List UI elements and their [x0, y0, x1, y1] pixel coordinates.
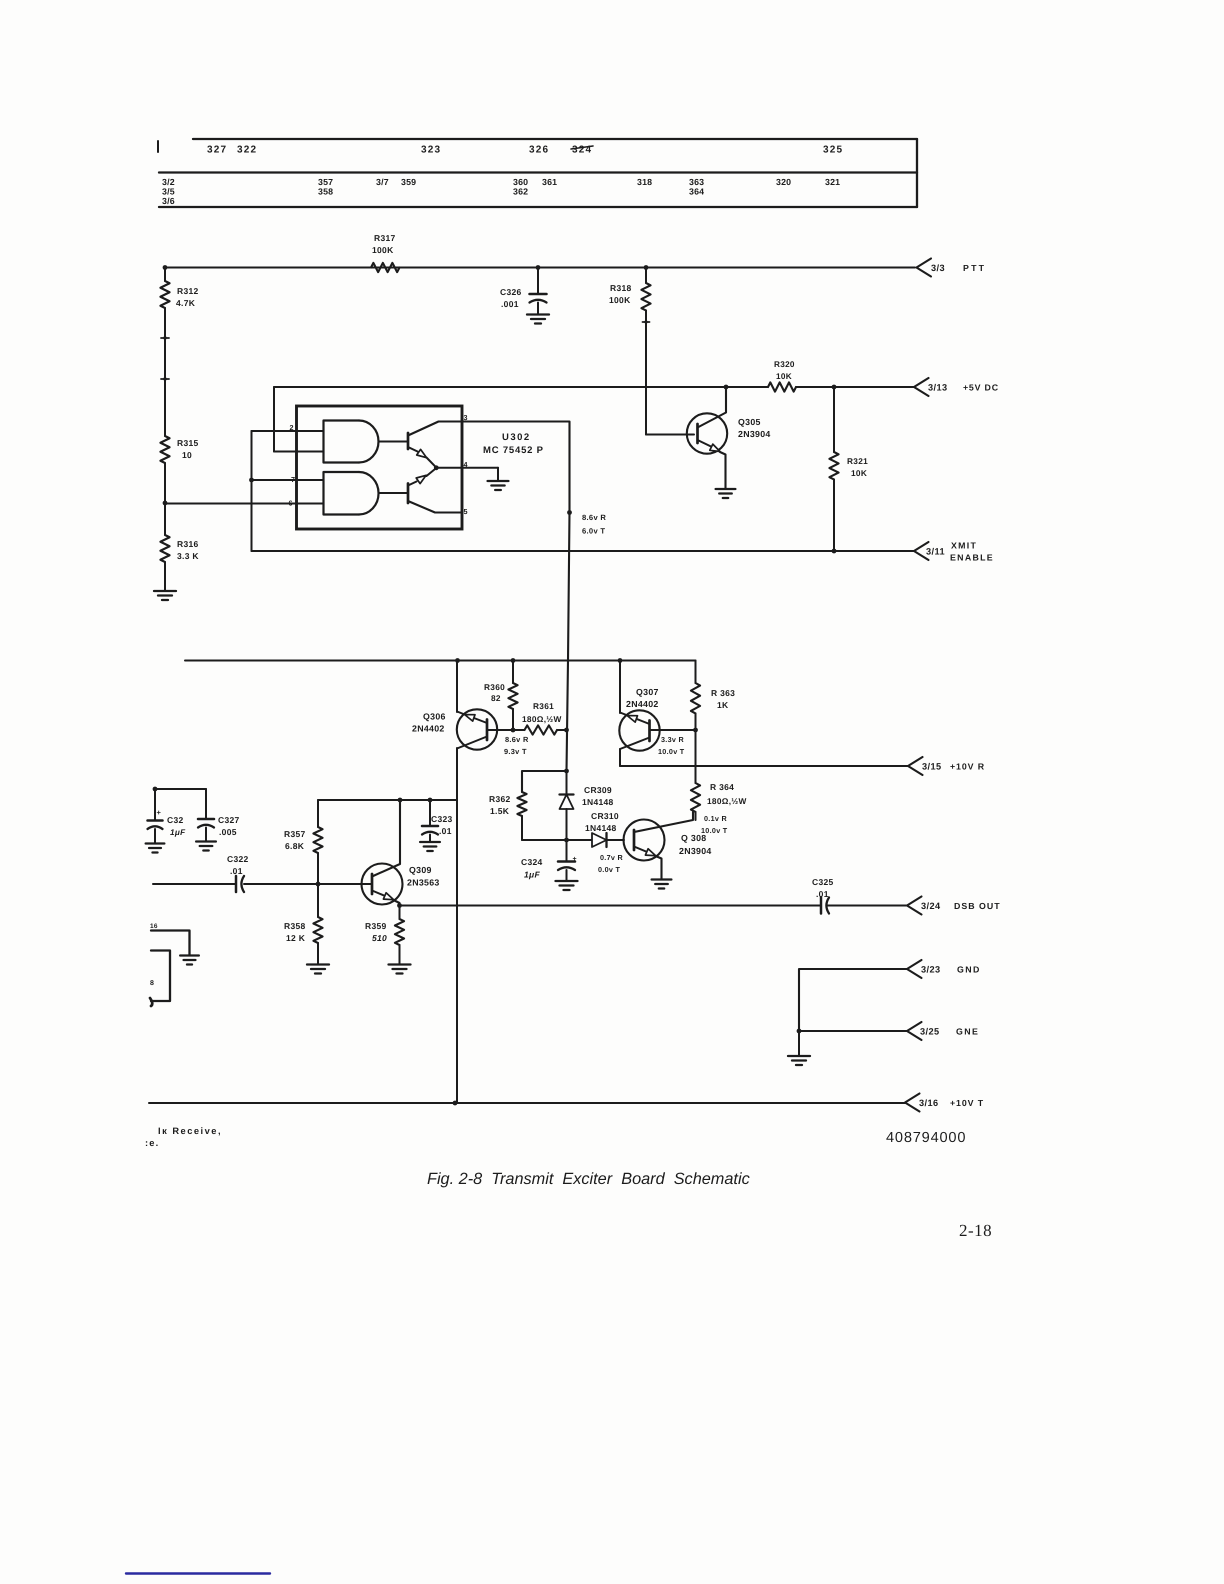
capacitor C322	[235, 876, 238, 892]
svg-text:100K: 100K	[372, 245, 394, 255]
wire +10V R horizontal net	[620, 765, 908, 767]
svg-text:R318: R318	[610, 283, 632, 293]
ground C32	[146, 842, 165, 844]
svg-text:3/25: 3/25	[920, 1027, 939, 1037]
svg-text:180Ω,½W: 180Ω,½W	[522, 714, 562, 724]
svg-text:Q309: Q309	[409, 865, 432, 875]
Q309 emitter	[372, 891, 384, 896]
wire 3/25 GND net	[799, 1030, 907, 1032]
AND gate A output wire	[379, 441, 409, 443]
U302 transistor A bar	[407, 433, 410, 449]
svg-text:C32: C32	[167, 815, 184, 825]
U302 transistor B bar	[407, 484, 410, 504]
svg-text:C323: C323	[431, 814, 453, 824]
node Q309 collector top junction	[398, 798, 403, 803]
svg-text:3/6: 3/6	[162, 196, 175, 206]
svg-text:2N3904: 2N3904	[679, 846, 712, 856]
svg-text:2-18: 2-18	[959, 1221, 992, 1240]
wire to chassis ground	[798, 1031, 800, 1056]
svg-text:R321: R321	[847, 456, 868, 466]
transistor Q308	[624, 820, 665, 861]
svg-text:4: 4	[464, 460, 468, 469]
svg-text:7: 7	[291, 475, 295, 484]
node Q305 collector junction	[724, 385, 729, 390]
wire pin 3 line	[462, 422, 570, 513]
wire CR309 top corner to R362	[522, 771, 567, 792]
node C32 top	[153, 787, 158, 792]
wire Q306 rail lower	[456, 748, 458, 1103]
wire left loop rail to U302 inputs	[251, 431, 253, 551]
ground Q308	[652, 878, 672, 880]
node U302 internal junction pin4	[434, 465, 439, 470]
node main rail bottom junction	[453, 1101, 458, 1106]
svg-text:364: 364	[689, 187, 704, 197]
wire C326 stem	[537, 268, 539, 295]
ground C324	[556, 880, 578, 882]
svg-text::е.: :е.	[145, 1138, 159, 1148]
svg-text:326: 326	[529, 145, 549, 156]
node Q309 emitter junction	[397, 903, 402, 908]
svg-text:GND: GND	[957, 965, 981, 975]
ground chassis	[788, 1055, 810, 1057]
U302 transistor B emitter to pin 5	[408, 501, 462, 513]
svg-text:4.7K: 4.7K	[176, 298, 196, 308]
resistor R359	[399, 906, 401, 920]
svg-text:10: 10	[182, 450, 192, 460]
svg-text:357: 357	[318, 177, 333, 187]
Q307 base wire	[650, 729, 696, 731]
AND gate B of U302	[324, 472, 360, 515]
resistor R361	[513, 729, 525, 731]
svg-text:C324: C324	[521, 857, 543, 867]
node 8.6v output	[567, 510, 572, 515]
capacitor C327	[205, 789, 207, 819]
connector 3/3 PTT	[917, 259, 932, 277]
table fragment middle border	[159, 171, 917, 173]
svg-text:ENABLE: ENABLE	[950, 553, 994, 563]
svg-text:C327: C327	[218, 815, 240, 825]
resistor R357	[317, 800, 319, 827]
Q309 collector	[372, 800, 400, 877]
svg-text:1N4148: 1N4148	[585, 823, 617, 833]
node GND bracket junction	[797, 1029, 802, 1034]
node CR309 bottom junction	[564, 838, 569, 843]
svg-text:.01: .01	[816, 889, 829, 899]
connector box fragment	[151, 951, 170, 1002]
svg-text:3/16: 3/16	[919, 1098, 938, 1108]
wire fragment to ground	[151, 931, 190, 956]
resistor R312	[160, 281, 169, 308]
svg-text:1N4148: 1N4148	[582, 797, 614, 807]
transistor Q307	[619, 710, 659, 750]
svg-text:CR310: CR310	[591, 811, 619, 821]
table fragment bottom border	[159, 206, 917, 208]
svg-text:.01: .01	[230, 866, 243, 876]
svg-text:327: 327	[207, 145, 227, 156]
svg-text:U302: U302	[502, 432, 531, 443]
svg-text:Iк Rеcеivе,: Iк Rеcеivе,	[158, 1126, 222, 1136]
svg-text:3/5: 3/5	[162, 187, 175, 197]
tick junction on rail 2	[161, 378, 169, 380]
svg-text:320: 320	[776, 177, 791, 187]
fragment corner blob	[150, 998, 152, 1006]
ground R359	[389, 963, 411, 965]
svg-text:359: 359	[401, 177, 416, 187]
svg-text:0.7v R: 0.7v R	[600, 853, 623, 862]
svg-text:180Ω,½W: 180Ω,½W	[707, 796, 747, 806]
wire left bias rail	[164, 268, 166, 282]
AND gate B output wire	[379, 492, 409, 494]
wire audio input line	[153, 883, 236, 885]
capacitor C324	[566, 840, 568, 862]
node pin7 branch junction	[249, 478, 254, 483]
svg-text:321: 321	[825, 177, 840, 187]
svg-text:.005: .005	[219, 827, 237, 837]
svg-text:318: 318	[637, 177, 652, 187]
IC U302 box	[297, 406, 463, 529]
resistor R320	[768, 382, 796, 391]
Q308 collector	[634, 812, 693, 832]
U302 transistor A emitter	[408, 447, 418, 452]
svg-text:12 K: 12 K	[286, 933, 306, 943]
diode CR309	[566, 771, 568, 794]
svg-text:358: 358	[318, 187, 333, 197]
node pin6 branch junction	[163, 501, 168, 506]
svg-text:Q305: Q305	[738, 417, 761, 427]
svg-text:C325: C325	[812, 877, 834, 887]
Q308 emitter	[634, 847, 646, 852]
node R321 top junction	[832, 385, 837, 390]
resistor R321	[833, 387, 835, 452]
svg-text:PTT: PTT	[963, 263, 986, 273]
svg-text:R361: R361	[533, 701, 554, 711]
svg-text:3.3v R: 3.3v R	[661, 735, 684, 744]
svg-text:3/3: 3/3	[931, 263, 945, 273]
svg-text:.01: .01	[439, 826, 452, 836]
svg-text:361: 361	[542, 177, 557, 187]
svg-text:Q307: Q307	[636, 687, 659, 697]
svg-text:2N4402: 2N4402	[412, 724, 445, 734]
wire pin 4 lead	[436, 467, 498, 469]
svg-text:Q306: Q306	[423, 712, 446, 722]
wire DSB OUT net	[400, 905, 822, 907]
svg-text:3/2: 3/2	[162, 177, 175, 187]
svg-text:1μF: 1μF	[170, 828, 186, 837]
svg-text:0.0v T: 0.0v T	[598, 865, 620, 874]
svg-text:+5V DC: +5V DC	[963, 383, 999, 393]
svg-text:2: 2	[290, 423, 294, 432]
svg-text:+10V R: +10V R	[950, 762, 985, 772]
wire R318 to Q305 base	[646, 434, 694, 436]
node Q309 base junction	[316, 882, 321, 887]
svg-text:R317: R317	[374, 233, 396, 243]
svg-text:6: 6	[289, 499, 293, 508]
tick on R318 rail	[643, 321, 650, 323]
wire Q307 rail upper	[619, 661, 621, 714]
svg-text:325: 325	[823, 145, 843, 156]
wire +5V DC horizontal net	[274, 386, 768, 388]
svg-text:Fig. 2-8 Transmit Exciter B: Fig. 2-8 Transmit Exciter Board Schemati…	[427, 1170, 750, 1188]
svg-text:R320: R320	[774, 360, 795, 369]
node Q306 emitter rail	[455, 658, 460, 663]
wire C326 to ground	[537, 303, 539, 315]
svg-text:3/7: 3/7	[376, 177, 389, 187]
ground C323	[420, 841, 440, 843]
node C323 top junction	[428, 798, 433, 803]
svg-text:.001: .001	[501, 299, 519, 309]
resistor R317	[371, 263, 400, 272]
Q306 base wire	[487, 729, 513, 731]
svg-text:16: 16	[150, 923, 158, 930]
connector 3/23 GND	[907, 960, 922, 978]
wire R362 bottom to base line	[522, 839, 592, 841]
node Q307 emitter rail	[618, 658, 623, 663]
svg-text:C326: C326	[500, 287, 522, 297]
svg-text:R362: R362	[489, 794, 511, 804]
svg-text:363: 363	[689, 177, 704, 187]
svg-text:+10V T: +10V T	[950, 1098, 984, 1108]
svg-text:510: 510	[372, 933, 387, 943]
svg-text:R312: R312	[177, 286, 199, 296]
svg-text:R360: R360	[484, 682, 505, 692]
svg-text:XMIT: XMIT	[951, 541, 977, 551]
svg-text:10.0v T: 10.0v T	[658, 747, 685, 756]
svg-text:8: 8	[150, 980, 154, 987]
svg-text:+: +	[157, 808, 162, 817]
svg-text:408794000: 408794000	[886, 1130, 966, 1146]
table fragment left cut tick	[157, 141, 159, 152]
svg-text:1.5K: 1.5K	[490, 806, 510, 816]
svg-text:+: +	[573, 856, 577, 863]
svg-text:100K: 100K	[609, 295, 631, 305]
connector 3/13 +5V DC	[914, 378, 929, 396]
Q307 collector	[620, 738, 650, 750]
capacitor C32 electrolytic	[154, 789, 156, 821]
svg-text:5: 5	[464, 507, 468, 516]
svg-text:323: 323	[421, 145, 441, 156]
svg-text:3/23: 3/23	[921, 965, 940, 975]
resistor R315	[160, 436, 169, 463]
svg-text:R358: R358	[284, 921, 306, 931]
capacitor C326	[530, 293, 547, 296]
svg-text:R 363: R 363	[711, 688, 735, 698]
svg-text:R359: R359	[365, 921, 387, 931]
svg-text:R357: R357	[284, 829, 306, 839]
ground C326	[527, 313, 549, 315]
wire pin7 input	[252, 479, 324, 481]
ground left rail	[154, 590, 176, 592]
Q306 collector	[457, 737, 487, 749]
AND gate A of U302	[324, 421, 360, 463]
wire XMIT ENABLE horizontal net	[252, 550, 915, 552]
svg-text:2N3563: 2N3563	[407, 878, 440, 888]
transistor Q306	[457, 709, 497, 749]
table fragment top border	[193, 138, 917, 140]
svg-text:322: 322	[237, 145, 257, 156]
ground R358	[307, 963, 329, 965]
svg-text:9.3v T: 9.3v T	[504, 747, 527, 756]
node R360 top	[511, 658, 516, 663]
ground C327	[196, 840, 216, 842]
U302 transistor B upper lead	[408, 482, 417, 486]
svg-text:3/11: 3/11	[926, 547, 945, 557]
svg-text:MC 75452 P: MC 75452 P	[483, 445, 544, 456]
wire +10V T horizontal net	[149, 1102, 905, 1104]
connector 3/15 +10V R	[908, 757, 923, 775]
node CR309 top junction	[564, 769, 569, 774]
Q305 collector	[698, 387, 727, 428]
svg-text:3/13: 3/13	[928, 383, 947, 393]
Q306 emitter with arrow	[457, 712, 487, 724]
wire C322 to base junction	[244, 883, 372, 885]
svg-text:Q 308: Q 308	[681, 833, 706, 843]
svg-text:1K: 1K	[717, 700, 729, 710]
node Q307 base R363 junction	[693, 728, 698, 733]
wire Q307 rail lower	[619, 749, 621, 766]
wire vertical from 8.6v node down to CR309	[567, 513, 570, 772]
ground U302 pin4	[497, 468, 499, 481]
svg-text:3/15: 3/15	[922, 762, 941, 772]
wire 3/23 GND net	[799, 969, 907, 1031]
Q305 emitter	[698, 440, 712, 447]
connector 3/24 DSB OUT	[907, 897, 922, 915]
wire +5V to U302 pin2b branch	[273, 387, 275, 452]
wire Q306 rail upper	[456, 661, 458, 713]
node PTT left rail junction	[163, 265, 168, 270]
tick junction on rail	[161, 337, 169, 339]
svg-text:2N3904: 2N3904	[738, 429, 771, 439]
svg-text:8.6v R: 8.6v R	[505, 735, 529, 744]
resistor R363	[695, 661, 697, 684]
capacitor C323	[429, 800, 431, 826]
svg-text:3/24: 3/24	[921, 901, 941, 911]
svg-text:DSB OUT: DSB OUT	[954, 901, 1001, 911]
diode CR310	[592, 833, 607, 847]
resistor R358	[317, 884, 319, 917]
svg-text:3.3 K: 3.3 K	[177, 551, 199, 561]
svg-text:R 364: R 364	[710, 782, 734, 792]
svg-text:1μF: 1μF	[524, 870, 540, 880]
wire mid horizontal supply line	[185, 660, 696, 662]
svg-text:0.1v R: 0.1v R	[704, 814, 727, 823]
svg-text:82: 82	[491, 693, 501, 703]
connector 3/25 GND	[907, 1022, 922, 1040]
node R318 top junction	[644, 265, 649, 270]
table fragment right border	[916, 139, 918, 207]
transistor Q305	[687, 413, 727, 453]
transistor Q309	[362, 864, 403, 905]
svg-text:CR309: CR309	[584, 785, 612, 795]
wire C32 top link	[155, 788, 206, 790]
connector 3/16 +10V T	[905, 1094, 920, 1112]
svg-text:10K: 10K	[776, 372, 792, 381]
node Q306 base junction	[511, 728, 516, 733]
node R361 right junction	[564, 728, 569, 733]
svg-text:R316: R316	[177, 539, 199, 549]
Q307 emitter with arrow	[620, 713, 650, 725]
wire R318 branch / resistor R318	[645, 268, 647, 284]
resistor R316	[160, 535, 169, 562]
svg-text:R315: R315	[177, 438, 199, 448]
resistor R360	[512, 661, 514, 684]
svg-text:10K: 10K	[851, 468, 867, 478]
svg-text:6.0v T: 6.0v T	[582, 527, 605, 536]
wire R357 top line	[318, 799, 457, 801]
U302 transistor A collector to pin 3	[408, 422, 462, 436]
svg-text:6.8K: 6.8K	[285, 841, 305, 851]
svg-text:362: 362	[513, 187, 528, 197]
svg-text:8.6v R: 8.6v R	[582, 513, 606, 522]
resistor R362	[517, 792, 526, 816]
resistor R364	[695, 730, 697, 783]
wire PTT horizontal net	[165, 267, 915, 269]
connector 3/11 XMIT ENABLE	[914, 542, 929, 560]
svg-text:C322: C322	[227, 854, 249, 864]
ground Q305 emitter	[716, 488, 736, 490]
wire pin6 input	[165, 503, 324, 505]
svg-text:2N4402: 2N4402	[626, 699, 659, 709]
svg-text:GNE: GNE	[956, 1027, 979, 1037]
capacitor C325	[820, 898, 823, 914]
node R321 bottom junction	[832, 549, 837, 554]
svg-text:360: 360	[513, 177, 528, 187]
node C326 junction	[536, 265, 541, 270]
ground fragment	[180, 954, 199, 956]
blue underline mark	[126, 1572, 270, 1574]
